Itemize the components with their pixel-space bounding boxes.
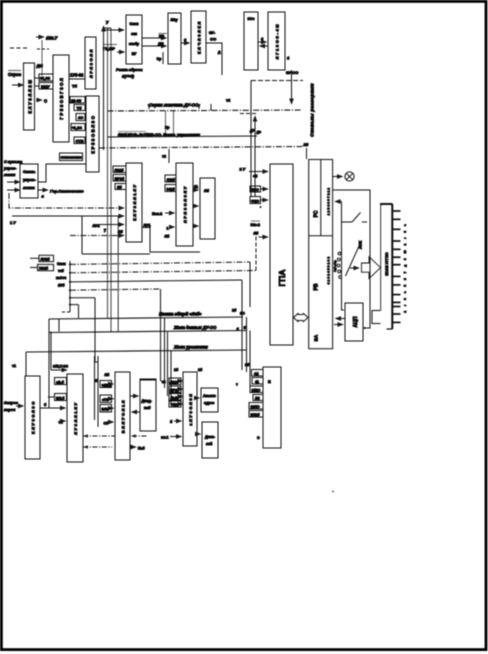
svg-text:Жала данных ДУ-ОО: Жала данных ДУ-ОО bbox=[173, 325, 217, 330]
svg-text:15к.7: 15к.7 bbox=[46, 36, 58, 41]
svg-text:Жала уравнения: Жала уравнения bbox=[173, 345, 208, 350]
svg-text:т2: т2 bbox=[162, 155, 166, 159]
svg-text:4О: 4О bbox=[78, 115, 83, 120]
svg-text:ЛРЛ8ОЛ9ЛУ: ЛРЛ8ОЛ9ЛУ bbox=[183, 185, 188, 223]
svg-text:управ-: управ- bbox=[23, 177, 36, 182]
svg-text:тчб: тчб bbox=[58, 269, 64, 273]
svg-text:дв: дв bbox=[257, 130, 262, 134]
svg-text:941б: 941б bbox=[167, 188, 176, 192]
svg-text:т1: т1 bbox=[12, 364, 16, 368]
svg-text:41: 41 bbox=[255, 380, 259, 384]
svg-text:сТВ: сТВ bbox=[102, 398, 109, 402]
svg-text:2 У: 2 У bbox=[240, 167, 246, 172]
svg-text:1б2О: 1б2О bbox=[252, 388, 261, 392]
svg-text:4132453132: 4132453132 bbox=[327, 256, 331, 285]
svg-text:1б: 1б bbox=[174, 368, 179, 372]
svg-text:ЛУ2: ЛУ2 bbox=[93, 224, 100, 228]
svg-text:кЛУ8ОЛ9Л: кЛУ8ОЛ9Л bbox=[188, 392, 193, 425]
svg-text:29-00: 29-00 bbox=[71, 98, 82, 103]
svg-text:О,5 эОр: О,5 эОр bbox=[333, 260, 337, 272]
svg-text:наб: наб bbox=[144, 406, 151, 410]
svg-text:ФИО: ФИО bbox=[251, 199, 260, 203]
svg-text:ЗУ-: ЗУ- bbox=[209, 30, 216, 35]
svg-text:отклонение: отклонение bbox=[61, 156, 82, 160]
svg-text:Ль1б: Ль1б bbox=[171, 396, 179, 400]
svg-text:чЦВЦ: чЦВЦ bbox=[102, 383, 112, 387]
svg-text:ГР58ОВГ8ОЛ: ГР58ОВГ8ОЛ bbox=[59, 77, 64, 120]
svg-text:б: б bbox=[170, 420, 173, 424]
svg-text:Рамка адреса: Рамка адреса bbox=[116, 67, 143, 72]
svg-text:Е: Е bbox=[268, 379, 271, 384]
svg-text:наОтч: наОтч bbox=[56, 276, 66, 280]
svg-text:ДМ: ДМ bbox=[158, 42, 164, 46]
svg-text:Тб: Тб bbox=[72, 84, 77, 89]
svg-text:Ср: Ср bbox=[157, 57, 163, 61]
svg-text:ления: ления bbox=[3, 173, 16, 177]
svg-text:1б: 1б bbox=[245, 363, 250, 367]
svg-text:6Оч: 6Оч bbox=[248, 17, 255, 21]
svg-text:ХЗ2б: ХЗ2б bbox=[39, 267, 49, 271]
svg-text:ЛУб: ЛУб bbox=[58, 284, 65, 288]
svg-text:ЛУ8ЛЛ1ЛУ: ЛУ8ЛЛ1ЛУ bbox=[73, 401, 78, 434]
svg-text:ГЦ,МР: ГЦ,МР bbox=[103, 46, 115, 51]
svg-text:Схем: Схем bbox=[130, 22, 139, 26]
svg-text:4Д: 4Д bbox=[254, 372, 259, 376]
svg-text:ОО: ОО bbox=[210, 37, 216, 42]
svg-text:1г3ч5б7д9Ю1г3ч: 1г3ч5б7д9Ю1г3ч bbox=[403, 219, 407, 312]
svg-text:Тб: Тб bbox=[77, 106, 82, 111]
svg-text:ЛЗ: ЛЗ bbox=[255, 397, 260, 401]
svg-text:Кнопка общей «Лчб»: Кнопка общей «Лчб» bbox=[159, 312, 202, 317]
svg-text:ИВ-ОО. Колич. управления: ИВ-ОО. Колич. управления bbox=[148, 132, 201, 137]
svg-text:1О: 1О bbox=[240, 312, 245, 316]
svg-text:КЛУ8ЛЛ2М: КЛУ8ЛЛ2М bbox=[28, 79, 33, 114]
svg-text:ЛЗ1б,МР,Ль,ЛьТб,: ЛЗ1б,МР,Ль,ЛьТб, bbox=[118, 133, 149, 137]
svg-text:т: т bbox=[236, 383, 238, 387]
svg-text:адрес: адрес bbox=[204, 401, 214, 405]
svg-text:ВЛЛУОЛ1Л: ВЛЛУОЛ1Л bbox=[121, 399, 126, 433]
svg-text:1: 1 bbox=[167, 227, 169, 231]
svg-text:ДМ: ДМ bbox=[37, 63, 44, 68]
svg-text:ления: ления bbox=[23, 185, 35, 190]
svg-text:Дисп-: Дисп- bbox=[205, 435, 216, 439]
svg-text:1б: 1б bbox=[198, 368, 203, 372]
svg-text:1б: 1б bbox=[232, 309, 237, 313]
svg-text:переч: переч bbox=[4, 407, 16, 412]
svg-text:ВЛВ: ВЛВ bbox=[102, 408, 110, 412]
svg-text:сБ.б: сБ.б bbox=[56, 380, 65, 384]
svg-text:ВУ: ВУ bbox=[132, 52, 137, 56]
svg-text:д: д bbox=[218, 50, 221, 54]
svg-text:отобр: отобр bbox=[129, 42, 139, 46]
svg-text:ВП.б: ВП.б bbox=[56, 396, 65, 400]
svg-text:КЛУ9ОЛ8О: КЛУ9ОЛ8О bbox=[31, 400, 36, 434]
svg-text:Лб: Лб bbox=[254, 232, 260, 236]
svg-text:КЛУ8ЛЛ1ЛУ: КЛУ8ЛЛ1ЛУ bbox=[132, 183, 137, 221]
svg-text:ГПА: ГПА bbox=[277, 269, 287, 286]
svg-text:1 У: 1 У bbox=[10, 220, 16, 225]
svg-text:С пульта: С пульта bbox=[4, 160, 22, 164]
svg-text:№б: №б bbox=[138, 447, 145, 451]
svg-text:б1: б1 bbox=[194, 185, 198, 189]
svg-text:б: б bbox=[44, 403, 47, 407]
svg-text:т2: т2 bbox=[226, 98, 231, 103]
svg-text:1(У=б): 1(У=б) bbox=[122, 74, 135, 79]
svg-text:У: У bbox=[106, 20, 109, 25]
svg-text:12ЛО: 12ЛО bbox=[251, 405, 260, 409]
svg-text:ЛУ1: ЛУ1 bbox=[144, 224, 151, 228]
svg-text:ЦБ: ЦБ bbox=[159, 35, 165, 39]
svg-text:Схема: Схема bbox=[23, 169, 36, 174]
svg-text:+1,24: +1,24 bbox=[72, 125, 83, 130]
svg-text:Дкод-: Дкод- bbox=[142, 399, 153, 403]
svg-text:4З1б: 4З1б bbox=[167, 178, 176, 182]
svg-text:ЛГ18ОЗ-4М: ЛГ18ОЗ-4М bbox=[275, 23, 280, 59]
svg-text:Лб: Лб bbox=[304, 143, 310, 147]
svg-text:1254337211: 1254337211 bbox=[327, 187, 331, 216]
svg-text:лей: лей bbox=[206, 442, 212, 446]
svg-text:Лб: Лб bbox=[105, 373, 110, 377]
svg-text:кл.1: кл.1 bbox=[161, 436, 169, 440]
svg-text:1б2,У-3О: 1б2,У-3О bbox=[53, 365, 68, 369]
svg-text:Сигналы развертки: Сигналы развертки bbox=[310, 83, 315, 137]
svg-text:С: С bbox=[44, 99, 47, 104]
svg-text:б: б bbox=[184, 39, 187, 43]
svg-text:у: у bbox=[104, 228, 106, 232]
svg-text:сти: сти bbox=[131, 32, 137, 36]
svg-text:Анализ: Анализ bbox=[203, 394, 216, 398]
svg-text:Лб: Лб bbox=[118, 230, 124, 234]
svg-text:ЛРЛ8ОЛЛ: ЛРЛ8ОЛЛ bbox=[89, 48, 94, 78]
svg-text:С: С bbox=[257, 436, 260, 440]
svg-text:Строс: Строс bbox=[8, 72, 22, 77]
svg-text:ЗУ-ОО: ЗУ-ОО bbox=[286, 70, 298, 75]
svg-text:Тб1б: Тб1б bbox=[171, 403, 179, 407]
svg-text:+б: +б bbox=[253, 175, 258, 179]
svg-text:1У5-02: 1У5-02 bbox=[70, 73, 84, 78]
svg-text:ЛВу: ЛВу bbox=[171, 18, 178, 22]
svg-text:управ-: управ- bbox=[3, 167, 17, 171]
svg-text:РС: РС bbox=[314, 210, 320, 217]
svg-text:Схем: Схем bbox=[57, 262, 66, 266]
svg-text:КЛЧЛ9ЛКЛ: КЛЧЛ9ЛКЛ bbox=[197, 20, 202, 54]
svg-text:Лб: Лб bbox=[165, 235, 171, 239]
svg-text:МДУ: МДУ bbox=[41, 84, 50, 89]
svg-text:Лб: Лб bbox=[117, 186, 123, 190]
svg-text:Запрос: Запрос bbox=[4, 400, 19, 405]
svg-text:Серия летчика ДУ-ОО: Серия летчика ДУ-ОО bbox=[149, 103, 199, 108]
svg-text:Кан.2: Кан.2 bbox=[152, 211, 163, 216]
svg-text:91в-2: 91в-2 bbox=[251, 223, 260, 227]
svg-text:л: л bbox=[42, 195, 45, 199]
svg-text:б: б bbox=[261, 38, 264, 42]
svg-text:АЦП: АЦП bbox=[353, 316, 359, 327]
svg-text:ЕА: ЕА bbox=[314, 334, 319, 341]
svg-text:Лб: Лб bbox=[204, 189, 210, 193]
svg-text:МР1б: МР1б bbox=[115, 177, 125, 181]
svg-text:РВ: РВ bbox=[314, 283, 320, 290]
svg-text:ВЛ1б: ВЛ1б bbox=[251, 413, 261, 417]
svg-text:СТВ: СТВ bbox=[76, 138, 84, 143]
svg-text:01,02: 01,02 bbox=[40, 76, 51, 81]
svg-text:ЛУ2б: ЛУ2б bbox=[41, 258, 51, 262]
svg-text:КР58ОВЛ8О: КР58ОВЛ8О bbox=[91, 114, 96, 153]
svg-text:ЛЗ1б: ЛЗ1б bbox=[115, 169, 125, 173]
svg-text:Гор.Отклонение: Гор.Отклонение bbox=[50, 188, 84, 193]
svg-text:б: б bbox=[287, 57, 290, 61]
svg-text:КОАВ УГГПС: КОАВ УГГПС bbox=[385, 252, 389, 276]
